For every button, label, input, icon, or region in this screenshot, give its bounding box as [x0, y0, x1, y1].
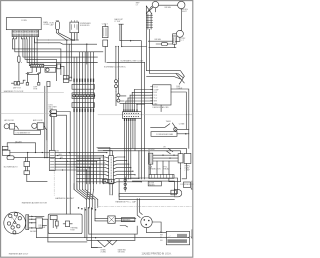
wire below fuse — [18, 62, 20, 81]
svg-text:BU: BU — [103, 169, 105, 171]
svg-text:+ CAP: + CAP — [184, 168, 190, 171]
wires below pill row — [150, 161, 186, 175]
defrost thermostat boxes — [14, 82, 16, 86]
svg-text:(TUBE): (TUBE) — [101, 251, 107, 253]
svg-text:CONN: CONN — [43, 24, 49, 26]
CB2 socket circles — [73, 94, 95, 97]
evap fan motor circle — [46, 68, 49, 71]
aux connector pair — [63, 76, 69, 79]
wires motor to icemaker — [29, 216, 36, 228]
connector shell box P1 — [6, 18, 41, 30]
compressor feed wires from top — [135, 199, 142, 241]
overload box — [184, 153, 191, 163]
svg-text:13 L1: 13 L1 — [154, 87, 158, 89]
blower wires — [5, 143, 55, 158]
TB1 bottom stubs — [27, 68, 40, 74]
svg-text:BK-WH: BK-WH — [165, 7, 172, 9]
K1 leads down — [72, 33, 77, 41]
bundle converge diagonals — [74, 190, 98, 200]
svg-text:CONDENSER FAN: CONDENSER FAN — [156, 133, 174, 136]
wire CON2 top stub — [104, 25, 106, 27]
c1 pin circle — [50, 111, 52, 113]
CON2 pins — [104, 28, 107, 36]
defrost heater terminal right — [38, 83, 40, 86]
svg-text:DEF: DEF — [154, 92, 157, 94]
condenser fan box M3 — [151, 132, 177, 137]
CN7 right chevron wires — [114, 157, 142, 183]
CN6 pin marks — [50, 153, 54, 170]
J1 pin dots — [13, 31, 37, 35]
door switch SW2 — [173, 36, 177, 44]
svg-text:CON 3: CON 3 — [102, 23, 108, 25]
small box lower-left — [24, 162, 30, 167]
wire bottom-left runs — [37, 238, 87, 242]
wire top bus y62.4 — [21, 61, 97, 63]
small box pair dots — [105, 181, 113, 182]
chevron connector marks — [31, 216, 33, 229]
TH1 X mark — [174, 128, 176, 130]
svg-text:BK-WH: BK-WH — [148, 149, 155, 151]
svg-text:WH: WH — [103, 162, 106, 164]
wire right horiz y104.1 — [137, 103, 145, 105]
wire bk-wh blower — [15, 143, 35, 153]
bracket divider line — [26, 216, 28, 229]
harness bar CN9 — [149, 175, 174, 179]
air door motor AD2 body — [37, 123, 44, 130]
bundle terminal row 1 dark — [74, 79, 93, 81]
M4 pin circle 4 — [7, 222, 10, 225]
CN7 left chevron wires — [77, 157, 109, 183]
svg-text:SCHEMATIC CONTROL: SCHEMATIC CONTROL — [104, 65, 127, 68]
wire CON2 down — [104, 47, 106, 63]
wire x144.5 drop — [144, 62, 146, 148]
defrost heater leads — [26, 72, 40, 74]
bus A y40.2 — [49, 39, 79, 41]
nested wires to defrost board — [147, 41, 185, 79]
vertical drop x71.4 — [70, 40, 72, 79]
wire pair B stubs — [116, 79, 126, 106]
svg-text:LT SW: LT SW — [115, 21, 121, 23]
blower box b2 — [2, 150, 10, 155]
left conn strip CN6 — [49, 150, 55, 170]
compressor hump shape — [174, 189, 181, 197]
svg-text:AUGER: AUGER — [30, 230, 37, 233]
wires CN5 down to harness box — [125, 120, 136, 179]
bus B y42.8 — [49, 43, 97, 44]
air door motor AD2 circle — [32, 123, 37, 128]
CN5 feed verticals above — [124, 90, 137, 112]
wire staircase A — [12, 39, 61, 75]
wire right bends into boxes — [166, 148, 186, 153]
inline box on lead — [57, 64, 60, 69]
wire staircase E — [24, 39, 56, 81]
wire or right y150.8 — [98, 151, 170, 154]
svg-text:RELAY: RELAY — [164, 167, 171, 170]
svg-text:HARNESS PTC + CAP: HARNESS PTC + CAP — [115, 201, 136, 204]
CN7 center dotted line — [110, 158, 112, 183]
inline connector pair B — [117, 94, 120, 97]
label box arrow text — [168, 235, 171, 238]
svg-text:HARNESS TO DOOR: HARNESS TO DOOR — [4, 90, 24, 93]
wire nest left edge — [118, 179, 120, 196]
CN6 fanout wires — [55, 153, 107, 170]
wire fuse branch — [18, 39, 20, 56]
CN5 terminal blobs top — [124, 110, 137, 112]
connector bar CB1 — [72, 84, 94, 89]
CN10 pins — [150, 155, 152, 163]
svg-text:HARNESS CAB NET: HARNESS CAB NET — [55, 197, 75, 200]
run capacitor C1 — [55, 21, 59, 29]
wire between lamps — [159, 4, 178, 6]
wire pair A stubs — [115, 83, 117, 92]
svg-text:AIR DOOR: AIR DOOR — [4, 119, 14, 122]
wire L2 down right col — [180, 9, 182, 31]
svg-text:HTR: HTR — [33, 89, 38, 91]
wire right edge bend — [188, 134, 190, 149]
defrost heater loop — [27, 74, 38, 82]
air door wires — [15, 126, 47, 140]
svg-text:SOLENOID: SOLENOID — [80, 25, 90, 27]
center bundle verticals — [74, 52, 93, 189]
M4 pin circle 2 — [14, 213, 17, 216]
CN7 pin label texts — [103, 158, 106, 185]
wires from small conns — [52, 112, 71, 215]
wire second vertical — [146, 14, 148, 71]
CON2 lower box — [103, 40, 108, 47]
texts in box — [70, 227, 78, 232]
c2 pin circle — [50, 114, 52, 116]
small boxes pair left — [103, 179, 108, 183]
thermal fuse element — [55, 221, 58, 226]
CB3 hatch pins — [74, 103, 93, 108]
lower verticals to bottom — [85, 208, 95, 248]
section divider right y114.8 — [98, 114, 193, 116]
component box right — [47, 82, 50, 87]
svg-text:DEFROST ADJ BD: DEFROST ADJ BD — [153, 106, 170, 109]
small comp right — [65, 221, 69, 227]
evap fan motor box — [45, 67, 56, 72]
M4 outer circle — [4, 212, 26, 234]
M3 right wire — [177, 133, 189, 135]
wire long bottom end — [188, 236, 190, 239]
inline connector pair A — [115, 80, 118, 83]
C1 top cap mark — [56, 20, 59, 22]
connector CON2 — [103, 26, 109, 37]
wires through CN8 — [95, 218, 136, 221]
cab harness big box — [48, 214, 82, 234]
harness ptc nest box — [119, 178, 178, 200]
wires small box — [26, 153, 47, 182]
wires below CN9 — [169, 168, 186, 181]
CN5 exits below — [125, 119, 136, 121]
X diagonals at board corner — [176, 74, 184, 85]
CN5 pin dots — [124, 113, 139, 117]
M4 pin circle 3 — [18, 217, 21, 220]
J1 pin stubs — [14, 37, 37, 39]
junction dots fan wires — [57, 152, 107, 171]
X junction top right — [146, 6, 152, 14]
right col verticals — [186, 114, 189, 134]
defrost thermostat box 2 — [17, 82, 19, 86]
wire bkwh right y148.4 — [98, 148, 173, 151]
harness cond label text — [122, 219, 131, 222]
CON3 rungs — [146, 15, 152, 27]
central connector CN7 — [109, 156, 114, 184]
inline circle pin 1 — [124, 179, 126, 181]
svg-text:TN: TN — [103, 183, 105, 185]
wires CN5 up-left to U1 — [120, 90, 153, 104]
auger conn bracket — [26, 215, 29, 230]
svg-text:THER: THER — [166, 121, 172, 123]
schematic line work — [1, 1, 193, 247]
section divider left y113.4 — [1, 112, 50, 114]
M4 pin circle 5 — [11, 226, 14, 229]
lamp L1 circle — [152, 1, 158, 7]
wire right col down to switch — [180, 29, 181, 31]
wire into ground — [91, 247, 97, 249]
thermostat circle TH1 — [174, 128, 177, 131]
svg-text:TC-2: TC-2 — [154, 98, 158, 100]
ptc wires 3 rows — [153, 155, 178, 161]
section divider harness-to-door — [1, 91, 64, 93]
defrost control board U1 — [153, 85, 171, 105]
small conn c1 — [51, 110, 57, 113]
small box lower-left B — [24, 171, 30, 175]
compressor circle M5 — [141, 216, 152, 227]
svg-text:GROUND: GROUND — [118, 251, 126, 253]
right bundle verticals — [139, 71, 149, 179]
svg-text:MAKER: MAKER — [39, 226, 46, 229]
ptc relay box — [178, 154, 183, 163]
wire thermostat leads — [11, 80, 25, 83]
K1 top terminals — [72, 20, 77, 22]
defrost heater terminals — [26, 83, 28, 86]
small box pair right — [109, 179, 114, 183]
K1 internal contacts — [72, 25, 77, 30]
junction dots left mid — [27, 152, 48, 158]
page background — [0, 0, 195, 258]
wires right of icemaker — [36, 216, 48, 242]
svg-text:TC-1: TC-1 — [154, 95, 158, 97]
CN9 pin hatch — [152, 175, 173, 179]
wire verticals x115-118 — [116, 47, 118, 80]
wire thermostat diagonals — [151, 123, 176, 128]
M4 pin tiny labels — [11, 217, 18, 229]
fuse F1 — [18, 56, 20, 62]
wires H into term block — [32, 39, 37, 64]
bracket arrow nest right — [191, 181, 192, 190]
wires U1 right side — [171, 89, 189, 114]
svg-text:TIMER: TIMER — [176, 88, 183, 90]
arrowhead SW1 wire — [130, 40, 132, 42]
vertical drop x66.8 — [66, 40, 68, 79]
svg-text:C FAN: C FAN — [179, 122, 185, 125]
dashdot divider bottom — [98, 206, 193, 208]
svg-text:SCHEMATIC REF. LIGHT: SCHEMATIC REF. LIGHT — [120, 60, 144, 63]
CN7 bottom exits — [110, 184, 112, 195]
C1 leads — [56, 30, 58, 33]
svg-text:CONNECTOR: CONNECTOR — [148, 168, 161, 170]
inline circles connector vertical — [124, 177, 126, 191]
label box noise filter — [148, 181, 161, 186]
wire L1 stub down — [149, 7, 156, 12]
connector block J1 — [12, 30, 39, 37]
compressor label box — [166, 231, 189, 244]
wire ladder bottom down — [149, 29, 151, 41]
aux connector leads — [69, 77, 72, 81]
thermal fuse leads — [53, 220, 57, 229]
J1 pin squares rows — [13, 31, 38, 36]
dotted connector CN5 — [123, 112, 142, 119]
label box low ambient — [14, 130, 41, 134]
small comp leads — [63, 223, 72, 225]
connector bar CB2 circles — [72, 93, 94, 99]
small conn c2 — [51, 114, 57, 117]
svg-text:CONN: CONN — [21, 20, 27, 22]
svg-text:CON 1: CON 1 — [48, 105, 53, 107]
svg-text:BLOWER AUTO: BLOWER AUTO — [4, 166, 18, 169]
svg-text:LIGHT: LIGHT — [181, 11, 187, 13]
U1 bottom lead — [160, 105, 162, 112]
aux connector cell 2 — [63, 79, 69, 82]
junction dots wh wire — [115, 46, 137, 105]
low ambient label text — [16, 132, 31, 135]
air door motor AD1 circle — [4, 124, 9, 129]
TB1 right lead — [44, 65, 57, 67]
M4 keyway notch circle — [13, 231, 16, 234]
blower box b1 — [2, 146, 8, 149]
junction dots right risers — [124, 156, 142, 182]
svg-text:HARNESS AUGER MOTOR: HARNESS AUGER MOTOR — [22, 202, 48, 205]
svg-text:FUSE: FUSE — [70, 230, 74, 232]
wire staircase B — [15, 39, 103, 52]
wire pin10 right — [37, 39, 48, 40]
wire x141.3 from top — [133, 41, 141, 104]
M4 internal chords — [11, 216, 18, 227]
SW2 contacts — [174, 38, 176, 43]
schematic ref light line — [107, 61, 145, 63]
bottom horizontal wire runs — [85, 221, 189, 248]
noise filter label text — [149, 183, 155, 187]
svg-text:BK-WH: BK-WH — [15, 141, 22, 143]
wire D1 row — [149, 44, 176, 48]
svg-text:BK-WH: BK-WH — [155, 39, 162, 41]
ice maker box — [36, 218, 42, 228]
label box strip 1 — [177, 234, 187, 237]
svg-text:COMP: COMP — [154, 89, 160, 91]
junction dot condenser wire — [185, 133, 187, 135]
wire inline box to aux pair — [60, 66, 64, 75]
junction dots ptc wires — [162, 155, 174, 159]
bundle stubs below converge — [87, 200, 98, 208]
lamp capsule D1 — [161, 43, 167, 46]
base pan ground V symbol — [98, 240, 118, 247]
small conn CN8 — [108, 216, 115, 223]
lamp L2 ceiling light — [178, 1, 185, 8]
page border frame — [1, 1, 193, 258]
wire SW1 right arrow — [120, 40, 133, 42]
svg-text:YL: YL — [103, 176, 105, 178]
dispenser relay box K1 — [70, 22, 79, 33]
nest right label box — [184, 182, 191, 188]
M4 pin circle 1 — [9, 214, 12, 217]
U1 pin stubs — [151, 87, 153, 104]
svg-text:HARNESS AIR DUCT: HARNESS AIR DUCT — [9, 252, 29, 255]
conn texts block — [48, 105, 57, 111]
hump inner rect — [171, 190, 176, 195]
inline circle pin 2 — [124, 183, 126, 185]
tiny text labels — [4, 3, 194, 256]
L3 wires — [173, 34, 180, 48]
svg-text:11A2652 PRINTED IN U.S.A.: 11A2652 PRINTED IN U.S.A. — [142, 253, 172, 256]
section divider vertical left dashdot — [47, 93, 54, 196]
svg-text:LOW AMBIENT KIT: LOW AMBIENT KIT — [16, 132, 31, 135]
svg-text:HARNESS: HARNESS — [122, 219, 131, 222]
inline circle pin 3 — [124, 187, 126, 189]
C1 diagonals to bus — [56, 33, 73, 41]
fanout bends down — [86, 156, 103, 184]
label box inside — [50, 215, 57, 219]
label box strip 2 — [167, 239, 187, 243]
freezer lamp L3 — [176, 30, 183, 37]
bundle junction dots row — [78, 207, 97, 210]
blower box b3 — [7, 156, 14, 160]
M4 center hub — [14, 222, 16, 224]
svg-text:FILTER: FILTER — [149, 184, 155, 186]
wire labels column — [160, 232, 164, 242]
bracket arrow right — [191, 230, 192, 239]
svg-text:BK: BK — [103, 158, 105, 160]
right risers from CN7 — [124, 157, 126, 161]
bundle stubs above converge — [74, 184, 93, 190]
bus B dot — [86, 44, 87, 45]
svg-text:DEF TST: DEF TST — [13, 88, 22, 90]
wire TH1 right — [175, 129, 188, 131]
wires component right — [45, 86, 47, 157]
U1 pin texts — [154, 87, 160, 106]
wire bk-wh row — [148, 40, 172, 42]
CN8 X mark — [109, 217, 115, 223]
junction dot bottom run — [95, 237, 96, 238]
svg-text:AIR DOOR: AIR DOOR — [33, 119, 43, 122]
connector bar CB3 — [72, 103, 94, 108]
wire staircase F — [27, 39, 98, 63]
bus junction dots — [66, 39, 75, 40]
M4 pin circle 6 — [17, 225, 20, 228]
arrow marks below — [120, 226, 127, 227]
wires from compressor — [147, 222, 167, 233]
wire right from bus B — [86, 44, 88, 64]
wire staircase D — [22, 39, 98, 57]
term block TB1 — [31, 64, 44, 67]
svg-text:COMPRESSOR: COMPRESSOR — [180, 184, 194, 186]
M5 pin dots — [144, 219, 150, 225]
cab connector CN10 — [149, 153, 153, 164]
backup light switch SW1 — [119, 24, 123, 46]
ladder connector CON3 — [148, 14, 151, 29]
svg-text:NOISE: NOISE — [149, 183, 154, 185]
wire pin9 right — [35, 39, 49, 43]
air door motor AD1 body — [9, 124, 14, 129]
wire G — [29, 39, 30, 66]
wire WH across — [122, 46, 147, 48]
harness cond label box — [121, 218, 134, 222]
bundle terminal row 2 dark — [74, 109, 93, 111]
vertical drop x69 — [68, 44, 70, 79]
svg-text:GN: GN — [103, 180, 105, 182]
CN7 top feeds — [97, 148, 112, 156]
svg-text:—>: —> — [168, 235, 171, 238]
